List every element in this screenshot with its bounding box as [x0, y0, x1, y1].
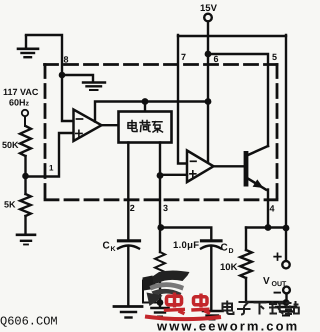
node junction at pin8 line — [59, 72, 66, 79]
wire output sense rail (pin7 to VOUT+) — [178, 35, 286, 37]
svg-text:1: 1 — [49, 164, 54, 173]
capacitor C2 CD — [201, 241, 221, 249]
wire to U3 non-inverting input — [160, 174, 187, 176]
trimmer resistor RB — [155, 252, 165, 279]
resistor R3 10K — [240, 250, 252, 278]
ground GND5 under RB — [152, 308, 169, 317]
ground GND4 under CK — [114, 307, 142, 318]
svg-text:5: 5 — [272, 52, 277, 62]
svg-text:60Hz: 60Hz — [9, 98, 30, 108]
IC dashed boundary box — [45, 65, 278, 200]
charge pump box U2 — [119, 112, 172, 143]
svg-text:15V: 15V — [200, 3, 218, 14]
svg-text:4: 4 — [270, 204, 275, 214]
wire emitter rail to resistor R3 — [245, 228, 247, 251]
wire U1 output to charge pump box — [102, 124, 119, 126]
wire R1 to R2 — [24, 156, 26, 194]
node pin3 line to U3 non-inverting input — [157, 172, 164, 179]
node VOUT- terminal — [283, 287, 290, 294]
wire drop to charge pump box top — [144, 102, 146, 112]
label CK — [103, 241, 116, 254]
wire emitter node rail — [246, 226, 286, 228]
wire charge pump pin 2 line down to CK — [127, 143, 129, 239]
label minus sign — [275, 292, 281, 294]
ground GND7 under VOUT — [276, 307, 296, 316]
node feedback wire meets 15V line — [205, 98, 212, 105]
wire U3 output to Q1 base — [214, 165, 244, 167]
resistor R2 5K — [20, 194, 31, 216]
wire VOUT- terminal to ground — [285, 294, 287, 303]
ground GND6 under CD — [203, 311, 223, 320]
node 15V supply terminal — [204, 14, 212, 22]
wire branch to capacitor CD — [161, 228, 212, 239]
wire R3 bottom to VOUT- node — [246, 278, 286, 302]
node VOUT- junction — [283, 299, 290, 306]
ground GND2 — [83, 83, 105, 91]
svg-text:1.0μF: 1.0μF — [173, 240, 199, 251]
svg-text:5K: 5K — [4, 200, 16, 210]
resistor R1 50K — [20, 126, 31, 156]
watermark gray text dianzi xiazaizhan — [223, 301, 299, 315]
wire junction to ground GND2 — [62, 75, 93, 81]
svg-text:117 VAC: 117 VAC — [3, 87, 39, 97]
node VOUT+ terminal — [282, 261, 289, 268]
wire RB bottom to ground — [159, 280, 161, 306]
wire divider to op-amp U1 non-inverting input (pin 1) — [26, 133, 74, 177]
label CD — [221, 243, 234, 256]
svg-text:V: V — [263, 276, 270, 287]
ground GND1 top-left — [18, 36, 38, 57]
svg-text:10K: 10K — [220, 262, 238, 273]
svg-text:50K: 50K — [2, 140, 19, 150]
wire 15V rail down to op-amp U3 — [207, 21, 209, 163]
svg-text:C: C — [103, 241, 110, 252]
label plus sign — [274, 253, 281, 260]
svg-text:Q606.COM: Q606.COM — [0, 315, 58, 329]
wire collector feed to Q1 — [208, 54, 268, 146]
node emitter rail to VOUT line — [283, 225, 290, 232]
node emitter junction — [265, 224, 272, 231]
label charge pump (dian he beng) — [128, 121, 163, 133]
wire CD to ground — [210, 247, 212, 310]
wire RB wiper arm — [143, 277, 160, 303]
svg-text:7: 7 — [181, 52, 186, 62]
svg-text:8: 8 — [64, 55, 69, 65]
label 117 VAC 60Hz — [3, 87, 39, 108]
wire sense rail down to VOUT+ — [285, 35, 287, 261]
node RB wiper junction — [157, 299, 164, 306]
transistor Q1 — [244, 146, 268, 228]
svg-text:D: D — [229, 248, 234, 255]
node pin3 line to CD branch — [157, 224, 164, 231]
wire U1 feedback up and right to 15V node — [95, 102, 208, 122]
wire sense rail down to U3 inverting input (pin 7) — [178, 35, 187, 164]
wire CK to ground — [127, 247, 129, 305]
watermark logo dark insect — [143, 270, 190, 306]
svg-text:www.eeworm.com: www.eeworm.com — [156, 319, 299, 332]
node 117VAC input terminal — [22, 110, 28, 116]
ground GND3 — [17, 235, 35, 245]
wire terminal to R1 — [24, 116, 26, 126]
op-amp U1 — [74, 110, 102, 142]
wire R2 to ground — [24, 216, 26, 234]
wire charge pump pin 3 line down — [159, 143, 161, 253]
node junction R1/R2 divider — [22, 173, 29, 180]
watermark red chongchong characters — [164, 293, 210, 314]
wire top-left rail to pin 8 — [26, 35, 62, 75]
capacitor C1 CK — [118, 241, 140, 249]
svg-text:3: 3 — [163, 203, 168, 213]
op-amp U3 — [187, 151, 214, 183]
svg-text:C: C — [221, 243, 228, 254]
node feedback to box top — [142, 98, 149, 105]
wire pin8 line down to op-amp U1 inverting input — [62, 75, 74, 121]
svg-text:2: 2 — [130, 203, 135, 213]
watermark red swoosh underline — [145, 317, 221, 320]
node 15V to collector feed — [205, 51, 212, 58]
label VOUT — [263, 276, 287, 288]
svg-text:6: 6 — [214, 54, 219, 64]
svg-text:K: K — [111, 246, 116, 253]
